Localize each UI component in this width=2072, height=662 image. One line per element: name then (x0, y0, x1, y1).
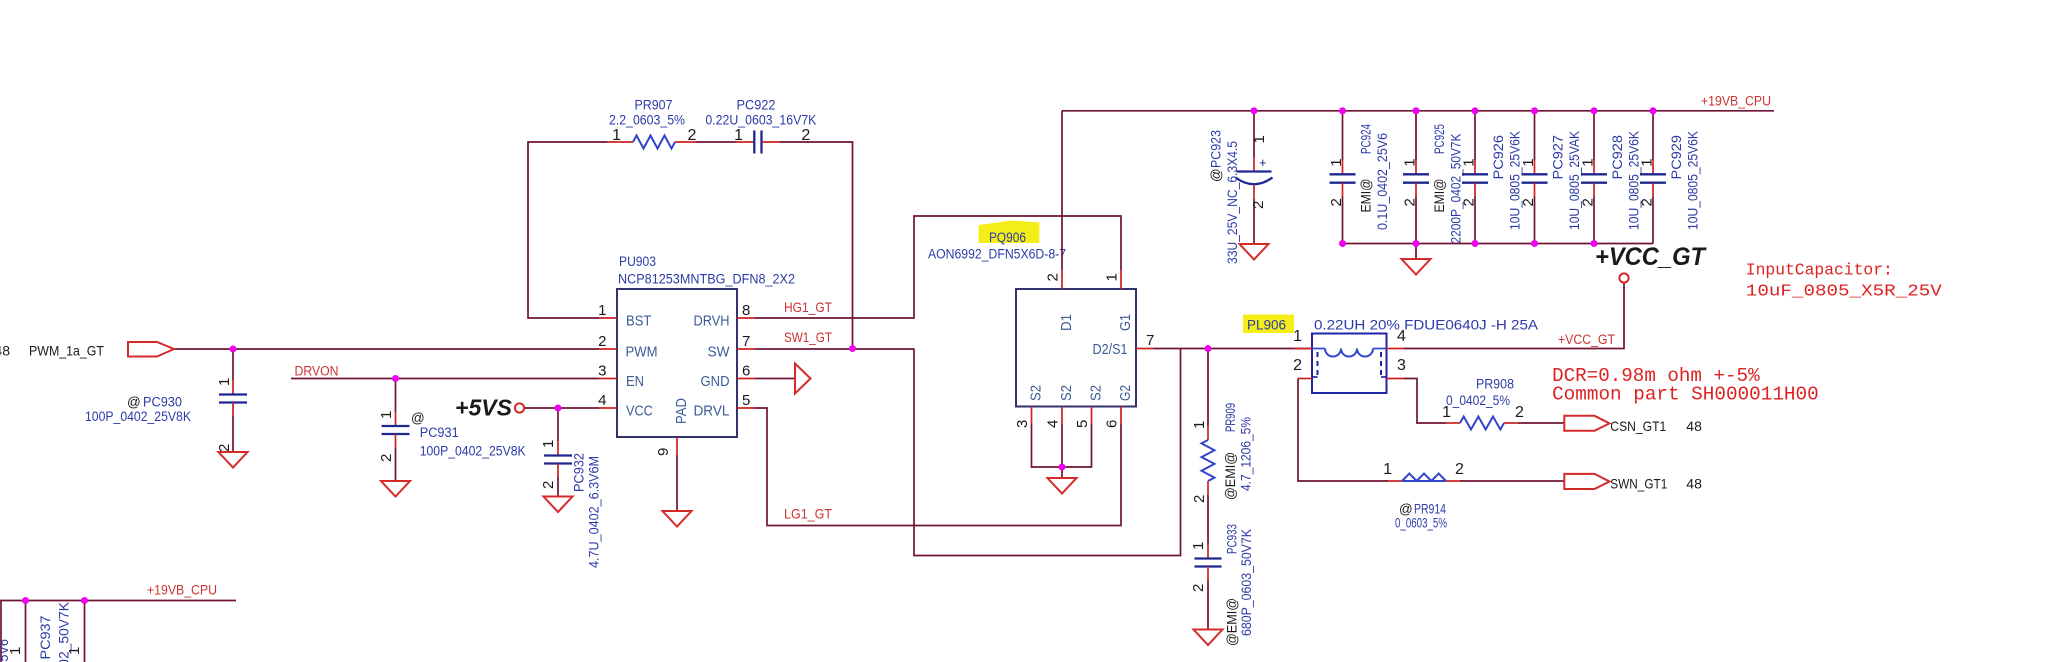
wire +5VS to VCC (525, 407, 600, 409)
resistor PR907 (607, 141, 633, 143)
svg-text:DRVH: DRVH (694, 313, 730, 330)
pin 1 G1 (1120, 270, 1122, 289)
svg-text:PC929: PC929 (1669, 135, 1684, 180)
wire PWM_1a_GT net (174, 348, 599, 350)
junction S2 join (1059, 464, 1066, 471)
svg-text:2: 2 (216, 444, 233, 452)
svg-text:1: 1 (1251, 135, 1268, 143)
port connector PWM_1a_GT (128, 342, 174, 357)
svg-text:Common part SH000011H00: Common part SH000011H00 (1552, 384, 1819, 406)
svg-text:SW1_GT: SW1_GT (784, 329, 832, 345)
svg-text:3: 3 (598, 363, 606, 380)
capacitor PC929 (1650, 107, 1657, 114)
svg-text:6: 6 (742, 363, 750, 380)
power terminal +VCC_GT (1619, 273, 1628, 282)
svg-text:@: @ (1399, 502, 1413, 517)
svg-text:BST: BST (626, 313, 651, 330)
resistor PR908 (1446, 422, 1460, 424)
ground (1194, 630, 1223, 646)
svg-text:33U_25V_NC_6.3X4.5: 33U_25V_NC_6.3X4.5 (1225, 141, 1240, 264)
port connector SWN_GT1 (1564, 474, 1609, 489)
svg-text:1: 1 (540, 440, 557, 448)
svg-text:@: @ (411, 411, 425, 426)
stub PL906 pin1 (1294, 348, 1312, 350)
ground (1402, 259, 1431, 275)
svg-text:1: 1 (66, 647, 83, 655)
svg-text:2: 2 (1190, 584, 1207, 592)
highlight PQ906 (979, 221, 1040, 244)
svg-text:PQ906: PQ906 (989, 230, 1026, 245)
svg-text:PAD: PAD (673, 398, 690, 424)
svg-text:1: 1 (378, 411, 395, 419)
svg-text:EMI@: EMI@ (1432, 179, 1447, 213)
junction PR909 tap (1205, 345, 1212, 352)
svg-text:1: 1 (1328, 158, 1345, 166)
highlight PL906 (1243, 315, 1294, 334)
svg-text:G2: G2 (1117, 385, 1134, 401)
svg-text:4: 4 (1397, 328, 1406, 345)
svg-text:2: 2 (540, 481, 557, 489)
stub PL906 pin2 (1298, 378, 1312, 380)
svg-text:SWN_GT1: SWN_GT1 (1610, 476, 1667, 492)
wire cap bank bottom bus (1343, 243, 1654, 245)
svg-text:4: 4 (1045, 420, 1062, 428)
port connector CSN_GT1 (1564, 416, 1609, 431)
svg-text:PC931: PC931 (420, 425, 459, 440)
svg-text:1: 1 (7, 647, 24, 655)
capacitor branch PC936 (22, 597, 29, 604)
svg-text:2: 2 (1045, 273, 1062, 281)
wire PAD to ground (676, 455, 678, 511)
svg-text:D1: D1 (1058, 314, 1075, 331)
svg-text:5: 5 (742, 392, 750, 409)
dashed core PL906 (1317, 352, 1319, 377)
svg-text:NCP81253MNTBG_DFN8_2X2: NCP81253MNTBG_DFN8_2X2 (618, 271, 795, 286)
capacitor PC927 (1531, 107, 1538, 114)
svg-text:@: @ (127, 395, 141, 410)
svg-text:PC932: PC932 (572, 453, 587, 492)
junction PC930 tap (230, 346, 237, 353)
capacitor branch left edge (0, 601, 2, 662)
svg-text:1: 1 (216, 378, 233, 386)
svg-text:4.7_1206_5%: 4.7_1206_5% (1239, 417, 1254, 491)
wire +19VB_CPU bottom left (0, 600, 236, 602)
svg-text:10U_0805_25V6K: 10U_0805_25V6K (1626, 131, 1641, 230)
resistor PR914 zero ohm (1388, 480, 1402, 482)
wire LG1_GT (755, 408, 1121, 526)
stub PL906 pin3 (1387, 378, 1405, 380)
svg-text:4: 4 (598, 392, 606, 409)
svg-text:PU903: PU903 (619, 254, 656, 269)
svg-text:1: 1 (1580, 158, 1597, 166)
wire PR914 to SWN_GT1 (1460, 480, 1564, 482)
svg-text:5: 5 (1074, 420, 1091, 428)
svg-text:1: 1 (1191, 421, 1208, 429)
svg-text:S2: S2 (1058, 385, 1075, 401)
pin 6 GND (737, 378, 755, 380)
svg-text:6: 6 (1104, 420, 1121, 428)
svg-text:0_0603_5%: 0_0603_5% (1395, 516, 1447, 531)
svg-text:7: 7 (742, 333, 750, 350)
svg-text:48: 48 (1686, 476, 1702, 492)
capacitor PC930 (232, 349, 234, 380)
svg-text:PR908: PR908 (1476, 377, 1514, 392)
svg-text:PC923: PC923 (1209, 130, 1224, 168)
svg-text:9: 9 (655, 448, 672, 456)
capacitor PC926 (1472, 107, 1479, 114)
ground (219, 452, 248, 468)
svg-text:1: 1 (1520, 158, 1537, 166)
svg-text:DRVL: DRVL (694, 403, 730, 420)
wire pin2 to PR914 (1298, 379, 1388, 482)
svg-text:InputCapacitor:: InputCapacitor: (1746, 262, 1893, 281)
junction PC931 tap (392, 375, 399, 382)
svg-text:2: 2 (1402, 198, 1419, 206)
svg-text:2: 2 (1580, 198, 1597, 206)
svg-text:680P_0603_50V7K: 680P_0603_50V7K (1239, 529, 1254, 636)
wire SW node to inductor (1154, 348, 1312, 350)
pin 6 G2 (1120, 407, 1122, 425)
svg-text:@EMI@: @EMI@ (1223, 452, 1238, 500)
pin 4 VCC (599, 407, 617, 409)
pin 3 EN (599, 378, 617, 380)
pin 2 D1 (1061, 270, 1063, 289)
ground (1240, 244, 1269, 260)
wire +19VB_CPU bus top (1062, 110, 1774, 112)
svg-text:GND: GND (701, 373, 730, 390)
svg-text:1: 1 (1190, 542, 1207, 550)
svg-text:PR907: PR907 (635, 98, 673, 113)
svg-text:1: 1 (598, 302, 606, 319)
svg-text:PC924: PC924 (1359, 124, 1374, 154)
svg-text:2: 2 (1515, 404, 1524, 421)
svg-text:PC927: PC927 (1551, 135, 1566, 180)
capacitor PC924 (1339, 107, 1346, 114)
ground (663, 511, 692, 527)
ground of cap bank (1415, 244, 1417, 260)
wire SW1_GT upper (755, 348, 914, 350)
gnd arrow pin6 (755, 378, 795, 380)
svg-text:48: 48 (1686, 418, 1702, 434)
capacitor PC932 (557, 408, 559, 441)
ground (544, 497, 573, 513)
junction PC932 tap (555, 405, 562, 412)
svg-text:@: @ (1209, 168, 1224, 182)
wire BST boost loop left (528, 142, 607, 318)
svg-text:+19VB_CPU: +19VB_CPU (147, 583, 217, 598)
svg-text:PR914: PR914 (1414, 502, 1446, 517)
svg-text:+: + (1259, 155, 1267, 170)
wire HG1_GT (755, 216, 1121, 318)
ground (381, 481, 410, 497)
svg-text:3: 3 (1014, 420, 1031, 428)
svg-text:PC922: PC922 (737, 98, 776, 113)
capacitor PC925 (1413, 107, 1420, 114)
inductor L1 PL906 (1312, 334, 1387, 394)
svg-text:HG1_GT: HG1_GT (784, 299, 832, 315)
svg-text:1: 1 (1383, 461, 1392, 478)
svg-text:2: 2 (1328, 198, 1345, 206)
wire D1 riser (1061, 111, 1063, 270)
svg-text:8: 8 (742, 302, 750, 319)
svg-text:1: 1 (1293, 328, 1302, 345)
svg-text:100P_0402_25V8K: 100P_0402_25V8K (420, 444, 526, 459)
svg-text:PR909: PR909 (1223, 403, 1238, 432)
junction SW node at PC922 (849, 345, 856, 352)
svg-text:+19VB_CPU: +19VB_CPU (1701, 94, 1771, 109)
wire SW1_GT return path (914, 349, 1181, 556)
svg-text:G1: G1 (1117, 314, 1134, 331)
pin 7 D2/S1 (1136, 348, 1154, 350)
pin 3 S2 (1031, 407, 1033, 425)
svg-text:1: 1 (1639, 158, 1656, 166)
coil PL906 (1312, 348, 1325, 350)
svg-text:100P_0402_25V8K: 100P_0402_25V8K (85, 409, 191, 424)
svg-text:2: 2 (1639, 198, 1656, 206)
svg-text:2: 2 (378, 454, 395, 462)
pin 9 PAD (676, 437, 678, 455)
capacitor PC922 (736, 141, 754, 143)
svg-text:+VCC_GT: +VCC_GT (1595, 243, 1708, 271)
svg-text:EN: EN (626, 373, 644, 390)
svg-text:0.1U_0402_25V6: 0.1U_0402_25V6 (1375, 133, 1390, 230)
wire DRVON net (291, 378, 599, 380)
svg-text:2: 2 (1461, 198, 1478, 206)
svg-text:S2: S2 (1088, 385, 1105, 401)
svg-text:2: 2 (1293, 357, 1302, 374)
pin 7 SW (737, 348, 755, 350)
svg-text:1: 1 (734, 127, 743, 144)
svg-text:0_0402_5%: 0_0402_5% (1446, 393, 1510, 408)
IC U1 PU903 gate driver (617, 289, 737, 437)
ground (1048, 478, 1077, 494)
capacitor PC923 polarized (1251, 107, 1258, 114)
svg-text:3: 3 (1397, 357, 1406, 374)
svg-text:4.7U_0402_6.3V6M: 4.7U_0402_6.3V6M (587, 456, 602, 568)
svg-text:1: 1 (1402, 158, 1419, 166)
pin 5 S2 (1091, 407, 1093, 425)
svg-text:PC926: PC926 (1491, 135, 1506, 180)
svg-text:2: 2 (1250, 201, 1267, 209)
svg-text:CSN_GT1: CSN_GT1 (1610, 418, 1666, 434)
svg-text:@EMI@: @EMI@ (1225, 598, 1240, 646)
resistor PR909 (1207, 349, 1209, 427)
svg-text:1: 1 (612, 127, 621, 144)
pin 1 BST (599, 317, 617, 319)
capacitor PC928 (1591, 107, 1598, 114)
wire +VCC_GT from pin4 (1404, 283, 1624, 349)
transistor Q1 PQ906 dual MOSFET (1016, 289, 1136, 407)
wire pin3 to PR908 (1404, 379, 1446, 424)
wire S2 pins to ground (1032, 424, 1092, 467)
wire PR907 to PC922 (696, 141, 736, 143)
svg-text:2200P_0402_50V7K: 2200P_0402_50V7K (1448, 134, 1463, 244)
svg-text:0.22U_0603_16V7K: 0.22U_0603_16V7K (705, 113, 816, 128)
svg-text:2.2_0603_5%: 2.2_0603_5% (609, 113, 685, 128)
pin 4 S2 (1061, 407, 1063, 425)
svg-text:2: 2 (1520, 198, 1537, 206)
svg-text:EMI@: EMI@ (1359, 179, 1374, 213)
svg-text:1: 1 (1104, 273, 1121, 281)
svg-text:PL906: PL906 (1247, 318, 1286, 333)
svg-text:2: 2 (1455, 461, 1464, 478)
svg-text:VCC: VCC (626, 403, 653, 420)
wire PR908 to CSN_GT1 (1518, 422, 1564, 424)
svg-text:10uF_0805_X5R_25V: 10uF_0805_X5R_25V (1746, 282, 1943, 301)
svg-text:10U_0805_25VAK: 10U_0805_25VAK (1567, 131, 1582, 230)
svg-text:PC928: PC928 (1610, 135, 1625, 180)
pin 2 PWM (599, 348, 617, 350)
svg-text:AON6992_DFN5X6D-8-7: AON6992_DFN5X6D-8-7 (928, 247, 1066, 262)
svg-text:0.22UH 20% FDUE0640J -H 25A: 0.22UH 20% FDUE0640J -H 25A (1314, 318, 1538, 333)
wire PC922 to SW node (780, 142, 853, 349)
capacitor PC931 (395, 379, 397, 413)
svg-text:DRVON: DRVON (295, 364, 339, 379)
svg-text:10U_0805_25V6K: 10U_0805_25V6K (1507, 131, 1522, 230)
svg-text:2: 2 (598, 333, 606, 350)
stub PL906 pin4 (1387, 348, 1405, 350)
svg-text:LG1_GT: LG1_GT (784, 506, 832, 522)
svg-text:+5VS: +5VS (455, 395, 513, 421)
svg-text:PC925: PC925 (1432, 124, 1447, 154)
svg-text:PWM: PWM (626, 344, 658, 361)
capacitor PC937 (81, 597, 88, 604)
svg-text:1: 1 (1442, 404, 1451, 421)
svg-text:7: 7 (1146, 332, 1154, 349)
svg-text:2: 2 (1191, 495, 1208, 503)
svg-text:PC933: PC933 (1225, 524, 1240, 554)
svg-text:48: 48 (0, 343, 10, 359)
svg-text:1: 1 (1461, 158, 1478, 166)
svg-text:PC937: PC937 (38, 616, 53, 660)
pin 5 DRVL (737, 407, 755, 409)
svg-text:+VCC_GT: +VCC_GT (1558, 332, 1615, 347)
capacitor PC933 (1207, 545, 1209, 559)
svg-text:PWM_1a_GT: PWM_1a_GT (29, 343, 104, 359)
svg-text:SW: SW (708, 344, 731, 361)
svg-text:PC930: PC930 (143, 395, 182, 410)
svg-text:D2/S1: D2/S1 (1093, 341, 1128, 358)
svg-text:2: 2 (688, 127, 697, 144)
pin 8 DRVH (737, 317, 755, 319)
junction dots overlay (230, 346, 237, 353)
svg-text:10U_0805_25V6K: 10U_0805_25V6K (1685, 131, 1700, 230)
svg-text:S2: S2 (1028, 385, 1045, 401)
